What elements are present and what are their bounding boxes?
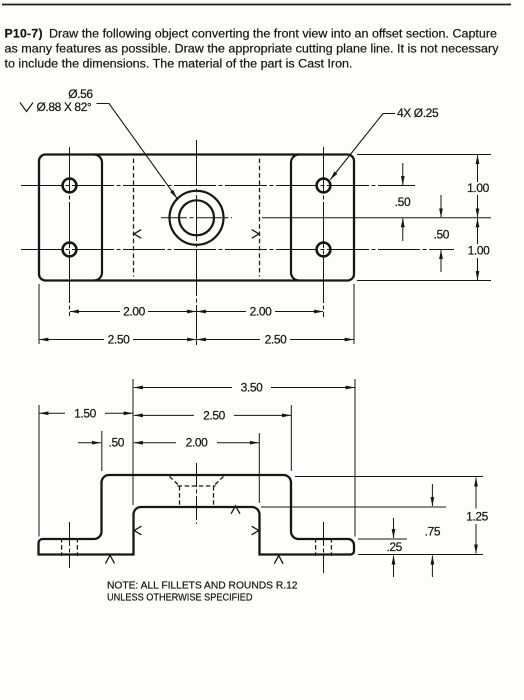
dim arrows .75 — [431, 484, 433, 506]
dim .50 lower right arrows — [440, 195, 442, 217]
top edge extension right — [357, 154, 491, 156]
svg-text:1.00: 1.00 — [468, 244, 490, 258]
vertical centerline right holes — [323, 147, 325, 317]
svg-text:1.25: 1.25 — [466, 510, 488, 524]
center hole inner circle — [179, 200, 214, 235]
hidden hole wall right — [213, 486, 215, 507]
dim line 3.50 — [134, 387, 232, 389]
extension line bottom right — [358, 554, 483, 556]
extension line boss top right — [295, 476, 483, 478]
corner hole top-right — [317, 179, 331, 193]
svg-text:.50: .50 — [395, 195, 411, 209]
svg-text:Draw the following object conv: Draw the following object converting the… — [49, 27, 497, 41]
leader line for 4X holes callout — [330, 114, 395, 180]
finish mark bottom left — [106, 555, 115, 563]
svg-text:2.50: 2.50 — [265, 333, 287, 347]
svg-text:.50: .50 — [434, 228, 450, 242]
extension line slot left shared — [132, 379, 134, 505]
centerline right flange hole — [323, 522, 325, 573]
centerline hole row 1 — [21, 185, 415, 187]
svg-text:to include the dimensions. Th: to include the dimensions. The material … — [5, 57, 353, 71]
extension line plate left — [38, 284, 40, 344]
svg-text:1.50: 1.50 — [74, 406, 96, 420]
svg-text:2.00: 2.00 — [250, 305, 272, 319]
hidden countersink cone right — [214, 477, 224, 487]
svg-text:3.50: 3.50 — [241, 381, 263, 395]
hidden hole wall left — [179, 486, 181, 507]
svg-text:.75: .75 — [425, 525, 441, 539]
horizontal centerline center hole — [161, 217, 232, 219]
svg-text:2.50: 2.50 — [108, 333, 130, 347]
dim line 2.00 right — [197, 311, 246, 313]
hidden countersink cone left — [170, 477, 180, 487]
svg-text:P10-7): P10-7) — [5, 27, 43, 41]
svg-text:Ø.56: Ø.56 — [68, 87, 93, 101]
hidden hole right flange — [316, 538, 332, 556]
hidden line slot right (top view) — [259, 159, 261, 277]
dim arrow .50 front — [78, 442, 101, 444]
svg-text:.50: .50 — [109, 436, 125, 450]
finish mark bottom right — [274, 555, 283, 563]
vertical centerline center hole — [196, 140, 198, 345]
extension line front right — [354, 379, 356, 537]
svg-text:as many features as possible.: as many features as possible. Draw the a… — [5, 42, 500, 56]
extension line slot right — [258, 433, 260, 503]
centerline hole row 2 — [21, 249, 454, 251]
dim line 2.50 front — [134, 414, 194, 416]
hidden hole left flange — [62, 538, 78, 556]
dim line 1.25 — [475, 478, 477, 509]
finish mark slot wall right — [252, 526, 259, 535]
mid extension line right — [262, 217, 491, 219]
extension line boss left — [101, 431, 103, 471]
dim line 2.50 right — [197, 339, 260, 341]
bottom edge extension right — [357, 280, 491, 282]
svg-text:UNLESS OTHERWISE SPECIFIED: UNLESS OTHERWISE SPECIFIED — [107, 593, 253, 604]
front view outline — [39, 475, 355, 555]
svg-text:2.00: 2.00 — [186, 436, 208, 450]
svg-text:NOTE: ALL FILLETS AND ROUNDS R: NOTE: ALL FILLETS AND ROUNDS R.12 — [107, 581, 298, 592]
svg-text:Ø.88 X 82°: Ø.88 X 82° — [37, 100, 92, 114]
centerline left flange hole — [69, 522, 71, 568]
svg-text:4X Ø.25: 4X Ø.25 — [397, 106, 439, 120]
extension line slot top right — [261, 506, 446, 508]
finish mark left (top view) — [134, 230, 141, 239]
boss left edge line with fillets — [94, 155, 102, 281]
finish mark slot top — [231, 506, 240, 514]
page top rule — [2, 4, 511, 6]
dim arrows .25 — [393, 518, 395, 538]
center hole counterbore circle — [170, 191, 224, 245]
extension line flange top right — [358, 538, 407, 540]
extension line front left — [38, 405, 40, 537]
svg-text:2.00: 2.00 — [123, 305, 145, 319]
top view plate outline — [39, 155, 354, 281]
leader line for countersink callout — [97, 104, 177, 199]
dim 1.00 lower — [477, 218, 479, 244]
extension line boss right — [290, 405, 292, 471]
centerline center hole front — [196, 463, 198, 524]
corner hole bottom-left — [63, 243, 77, 257]
dim line 1.50 — [39, 412, 65, 414]
corner hole bottom-right — [317, 243, 331, 257]
extension line plate right — [353, 284, 355, 344]
corner hole top-left — [63, 179, 77, 193]
dim line 2.00 front — [134, 442, 176, 444]
vertical centerline left holes — [69, 147, 71, 316]
dim .50 upper right arrows — [402, 163, 404, 185]
dim line 2.50 left — [39, 339, 104, 341]
svg-text:1.00: 1.00 — [467, 181, 489, 195]
dim 1.00 upper — [477, 155, 479, 182]
finish mark slot wall left — [134, 526, 141, 535]
hidden line slot left (top view) — [133, 159, 135, 277]
dim line 2.00 left — [70, 311, 120, 313]
svg-text:.25: .25 — [386, 540, 402, 554]
countersink symbol — [20, 103, 33, 112]
boss right edge line with fillets — [291, 155, 299, 281]
hidden countersink bottom — [178, 485, 216, 487]
svg-text:2.50: 2.50 — [203, 408, 225, 422]
finish mark right (top view) — [252, 230, 259, 239]
